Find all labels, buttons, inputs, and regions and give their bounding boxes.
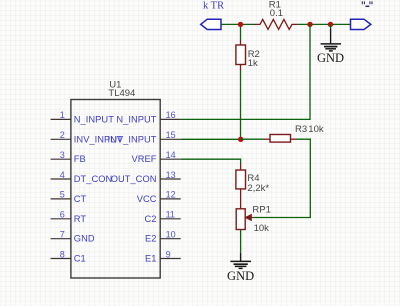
pin 3 (FB) xyxy=(51,150,86,164)
wire R1 to right port xyxy=(298,23,351,25)
wire RP1 to ground xyxy=(240,230,242,253)
GND label top xyxy=(317,51,344,65)
pin 2 (INV_INPUT) xyxy=(51,130,123,144)
svg-text:E1: E1 xyxy=(145,254,156,264)
svg-text:1k: 1k xyxy=(248,58,258,69)
svg-text:2: 2 xyxy=(60,130,65,140)
svg-text:N_INPUT: N_INPUT xyxy=(74,114,114,124)
pin 9 (E1) xyxy=(145,249,181,263)
pin 7 (GND) xyxy=(51,230,95,244)
potentiometer RP1 xyxy=(236,209,251,230)
node junction R2/pin15/R3 xyxy=(238,137,243,142)
pin 6 (RT) xyxy=(51,210,87,224)
svg-text:VCC: VCC xyxy=(137,194,157,204)
R1 value 0.1 xyxy=(270,8,283,19)
port k TR xyxy=(201,19,221,29)
svg-text:VREF: VREF xyxy=(132,154,157,164)
svg-text:GND: GND xyxy=(227,269,254,283)
svg-text:9: 9 xyxy=(166,249,171,259)
port "_" label xyxy=(362,1,372,6)
wire top junction to R2 xyxy=(240,24,242,40)
pin 16 (N_INPUT) xyxy=(116,110,180,124)
pin 15 (INV_INPUT) xyxy=(107,130,180,144)
svg-text:E2: E2 xyxy=(145,234,156,244)
svg-text:13: 13 xyxy=(166,170,176,180)
pin 12 (VCC) xyxy=(137,190,181,204)
svg-text:4: 4 xyxy=(60,170,65,180)
pin 1 (N_INPUT) xyxy=(51,110,115,124)
svg-text:10: 10 xyxy=(166,230,176,240)
RP1 value 10k xyxy=(254,223,270,234)
junction at x310 rail xyxy=(307,22,312,27)
R3 value 10k xyxy=(308,124,324,135)
svg-text:DT_CON: DT_CON xyxy=(74,174,113,184)
RP1 designator xyxy=(252,204,270,215)
svg-text:RP1: RP1 xyxy=(252,204,270,215)
svg-text:0.1: 0.1 xyxy=(270,8,283,19)
wire R3 to RP1 wiper xyxy=(251,139,310,217)
svg-text:INV_INPUT: INV_INPUT xyxy=(107,134,156,144)
svg-text:GND: GND xyxy=(317,51,344,65)
wire pin15 to node xyxy=(181,138,241,140)
wire pin14 to R4 xyxy=(181,159,241,163)
junction at left port rail xyxy=(238,22,243,27)
resistor R3 xyxy=(264,135,297,143)
R2 value 1k xyxy=(248,58,258,69)
svg-text:R3: R3 xyxy=(295,124,307,135)
wire pin16 to top rail xyxy=(181,24,310,119)
svg-text:2,2k*: 2,2k* xyxy=(247,183,269,194)
R4 value 2,2k* xyxy=(247,183,269,194)
svg-text:k TR: k TR xyxy=(203,0,224,11)
pin 14 (VREF) xyxy=(132,150,181,164)
op-amp U1 designator xyxy=(109,80,121,91)
resistor R4 xyxy=(236,164,246,209)
svg-text:14: 14 xyxy=(166,150,176,160)
wire left port to R1 xyxy=(221,23,254,25)
svg-text:7: 7 xyxy=(60,230,65,240)
wire node to R3 xyxy=(241,138,264,140)
svg-text:CT: CT xyxy=(74,194,87,204)
svg-text:C2: C2 xyxy=(145,214,157,224)
svg-text:1: 1 xyxy=(60,110,65,120)
GND label bottom xyxy=(227,269,254,283)
R4 designator xyxy=(247,173,259,184)
svg-text:RT: RT xyxy=(74,214,87,224)
junction at GND rail xyxy=(328,22,333,27)
svg-text:10k: 10k xyxy=(254,223,270,234)
svg-text:12: 12 xyxy=(166,190,176,200)
svg-text:C1: C1 xyxy=(74,254,86,264)
wire R2 to node xyxy=(240,70,242,139)
ground GND top xyxy=(321,24,341,51)
resistor R1 xyxy=(254,19,298,29)
pin 11 (C2) xyxy=(145,210,181,224)
pin 10 (E2) xyxy=(145,230,181,244)
R2 designator xyxy=(248,49,260,60)
svg-text:11: 11 xyxy=(166,210,175,220)
svg-text:15: 15 xyxy=(166,130,176,140)
IC U1 body xyxy=(71,100,160,279)
svg-text:8: 8 xyxy=(60,249,65,259)
svg-text:10k: 10k xyxy=(308,124,324,135)
svg-text:GND: GND xyxy=(74,234,95,244)
U1 value TL494 xyxy=(108,88,135,99)
svg-text:6: 6 xyxy=(60,210,65,220)
pin 8 (C1) xyxy=(51,249,86,263)
svg-text:FB: FB xyxy=(74,154,86,164)
svg-text:16: 16 xyxy=(166,110,176,120)
port "_" xyxy=(351,19,371,29)
svg-text:3: 3 xyxy=(60,150,65,160)
resistor R2 xyxy=(236,40,246,70)
pin 4 (DT_CON) xyxy=(51,170,113,184)
svg-text:TL494: TL494 xyxy=(108,88,135,99)
pin 5 (CT) xyxy=(51,190,87,204)
svg-text:N_INPUT: N_INPUT xyxy=(116,114,156,124)
svg-text:OUT_CON: OUT_CON xyxy=(111,174,157,184)
svg-text:5: 5 xyxy=(60,190,65,200)
R1 designator xyxy=(269,0,281,10)
pin 13 (OUT_CON) xyxy=(111,170,181,184)
ground GND bottom xyxy=(230,253,251,269)
R3 designator xyxy=(295,124,307,135)
port "k TR" label xyxy=(203,0,224,11)
